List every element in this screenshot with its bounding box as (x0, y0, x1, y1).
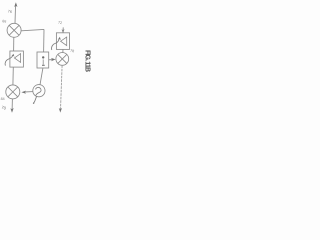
amplifier box B1 (10, 51, 24, 67)
arrowhead: bottom-left arrow pointing down (10, 108, 13, 113)
amplifier triangle in B3 (61, 37, 67, 46)
gain-control curved arrow on B1 (5, 55, 13, 65)
gain-control curved arrow on B3 (52, 39, 60, 50)
oscillator O1 (circle with tilde) (33, 85, 45, 97)
wire: M3 bottom long output (61, 65, 63, 109)
svg-text:78: 78 (70, 49, 75, 54)
input arrow above box B3 (62, 27, 64, 32)
svg-text:72: 72 (58, 21, 63, 26)
svg-text:FIG. 11B: FIG. 11B (84, 50, 91, 72)
svg-text:84: 84 (1, 97, 5, 101)
wire: B2 bottom to oscillator O1 (40, 68, 43, 85)
wire: corner down to B2 top (43, 29, 45, 52)
wire: B3 bottom to mixer M3 (62, 49, 64, 53)
oscillator/phase box B2 (37, 52, 49, 68)
wire: M1 bottom to amplifier box B1 (13, 37, 15, 51)
wire: M2 bottom to output arrow (11, 99, 13, 111)
symbol inside B2: dot over line (42, 56, 44, 58)
mixer M1 (circle with X) (7, 23, 21, 37)
mixer M3 (circle with X) (56, 53, 69, 66)
amplifier triangle in B1 (14, 54, 20, 63)
mixer M2 (circle with X) (6, 85, 20, 99)
wire+arrow: O1 left to mixer M2 (24, 91, 32, 93)
arrowhead: top arrow pointing up (14, 2, 17, 7)
wire: top output arrow above mixer M1 (14, 4, 17, 23)
wire: M1 right to corner above box B2 (21, 29, 44, 30)
wire+arrow: B2 right to mixer M3 (49, 59, 54, 61)
arrowhead: bottom-right arrow pointing down (59, 108, 62, 113)
svg-text:76: 76 (7, 9, 12, 14)
lead line below O1 (34, 96, 37, 102)
wire: B1 bottom to mixer M2 (12, 67, 14, 85)
svg-text:86: 86 (2, 19, 7, 24)
amplifier box B3 (56, 33, 69, 50)
